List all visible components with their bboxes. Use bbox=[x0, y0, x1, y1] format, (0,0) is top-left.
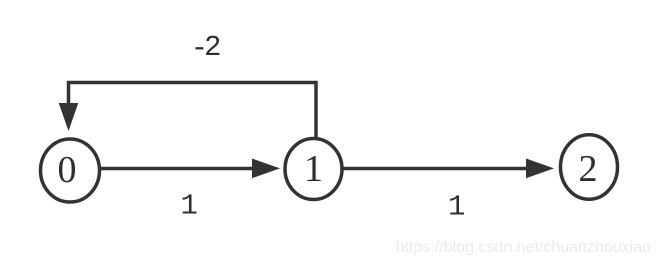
node 1 bbox=[285, 139, 342, 200]
edge label -2 bbox=[195, 36, 219, 55]
arrowhead edge 1 to 2 bbox=[526, 159, 554, 179]
node 0 bbox=[41, 139, 100, 202]
svg-text:https://blog.csdn.net/chuanzho: https://blog.csdn.net/chuanzhouxiao bbox=[396, 239, 651, 256]
edge label 1 (0 to 1) bbox=[183, 194, 197, 213]
arrowhead edge 1 to 0 bbox=[59, 103, 79, 131]
wire edge 1 to 2 bbox=[343, 167, 528, 171]
wire edge 0 to 1 bbox=[100, 167, 254, 171]
node 2 bbox=[561, 135, 618, 200]
edge label 1 (1 to 2) bbox=[450, 195, 464, 214]
arrowhead edge 0 to 1 bbox=[252, 159, 280, 179]
wire edge 1 to 0 (feedback) bbox=[69, 83, 317, 138]
